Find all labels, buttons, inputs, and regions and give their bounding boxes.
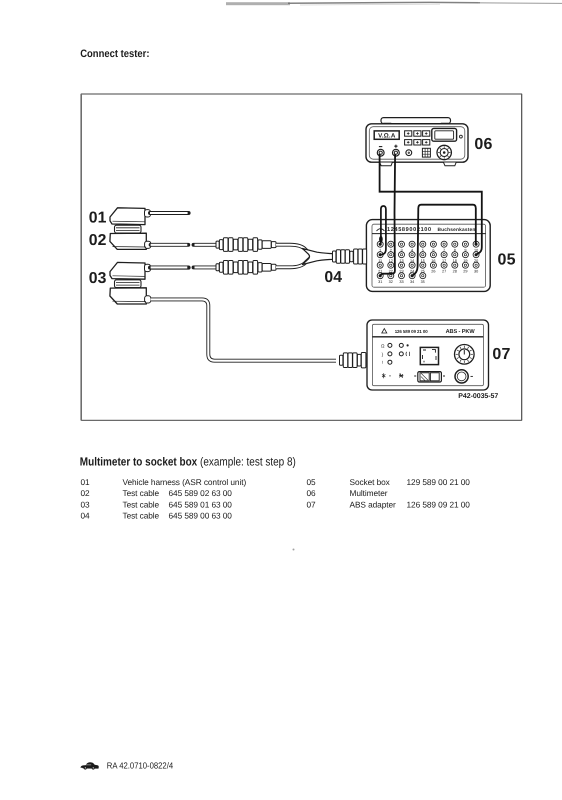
ABS adapter slide switch [414, 372, 445, 382]
connector 03 (plug body) [110, 262, 151, 279]
ribbed plug into ABS adapter [340, 353, 366, 368]
svg-text:03: 03 [89, 270, 107, 287]
svg-text:01: 01 [89, 209, 107, 226]
svg-text:01: 01 [81, 477, 91, 487]
svg-text:06: 06 [307, 488, 317, 498]
multimeter 06 body [366, 118, 468, 166]
svg-text:04: 04 [324, 269, 342, 286]
svg-text:03: 03 [81, 499, 91, 509]
label 02 [89, 232, 107, 249]
cable 02 curve into Y junction [276, 245, 312, 256]
svg-text:02: 02 [89, 232, 107, 249]
ABS adapter round connector [455, 370, 473, 383]
ABS adapter indicator lamps [381, 343, 410, 365]
svg-text:04: 04 [81, 511, 91, 521]
svg-text:02: 02 [81, 488, 91, 498]
ribbed coupler on cable 02 [216, 238, 276, 252]
socket grid pins 1-35 [377, 241, 479, 284]
ABS adapter 07 body [367, 320, 489, 390]
svg-text:Multimeter: Multimeter [350, 488, 388, 498]
svg-text:30: 30 [474, 269, 478, 273]
svg-text:P42-0035-57: P42-0035-57 [458, 393, 498, 400]
svg-text:Connect tester:: Connect tester: [80, 48, 149, 60]
svg-text:RA 42.0710-0822/4: RA 42.0710-0822/4 [107, 761, 173, 771]
label 07 [492, 346, 510, 363]
plug tips in sockets 10, 11, 20, 31, 34 [379, 243, 478, 278]
socket box 05 body [366, 220, 490, 292]
socket box title [377, 227, 476, 233]
svg-text:126 589 09 21 00: 126 589 09 21 00 [407, 499, 471, 509]
ribbed coupler on cable 03 [216, 261, 276, 275]
stray scan dot [293, 549, 295, 551]
figure number P42-0035-57 [458, 393, 498, 400]
svg-text:Multimeter to socket box (exam: Multimeter to socket box (example: test … [80, 455, 296, 469]
svg-text:645 589 01 63 00: 645 589 01 63 00 [169, 499, 233, 509]
section heading [80, 455, 296, 469]
svg-text:Test cable: Test cable [123, 511, 160, 521]
svg-text:645 589 00 63 00: 645 589 00 63 00 [169, 511, 233, 521]
test lead: multimeter minus to socket 20 [380, 154, 482, 254]
svg-text:31: 31 [378, 280, 382, 284]
svg-text:07: 07 [492, 346, 510, 363]
svg-text:33: 33 [399, 280, 403, 284]
jumper lead: socket 1 to socket 11 [379, 206, 386, 255]
svg-text:Test cable: Test cable [123, 499, 160, 509]
svg-text:28: 28 [453, 269, 457, 273]
connector 02 (plug body) [110, 233, 151, 249]
scan artifact line (top edge) [226, 2, 562, 5]
svg-text:!: ! [382, 360, 383, 365]
svg-text:05: 05 [307, 477, 317, 487]
svg-text:34: 34 [410, 280, 414, 284]
label 06 [474, 136, 492, 153]
svg-text:29: 29 [463, 269, 467, 273]
cable 03 lead to ribbed coupler [151, 265, 218, 269]
jumper lead: socket 34 to socket 10 [413, 205, 476, 275]
coupling section between connectors [115, 225, 142, 233]
svg-text:35: 35 [421, 280, 425, 284]
cable from connector 03 [150, 266, 189, 270]
label 05 [498, 252, 516, 269]
ABS adapter rotary knob [455, 345, 475, 365]
ribbed plug of cable 04 into socket box [333, 249, 367, 264]
ABS adapter title row [382, 329, 476, 336]
test lead: multimeter plus to socket 31 [381, 154, 395, 276]
cable 03 curve into Y junction [276, 256, 312, 267]
label 03 [89, 270, 107, 287]
multimeter terminals [377, 145, 399, 157]
connector 03 lower (plug body) [110, 288, 151, 304]
svg-text:129 589 00 21 00: 129 589 00 21 00 [407, 477, 471, 487]
svg-text:06: 06 [474, 136, 492, 153]
diagram border frame [81, 94, 522, 420]
svg-text:Vehicle harness (ASR control u: Vehicle harness (ASR control unit) [123, 477, 247, 487]
svg-text:V.Ω.A: V.Ω.A [378, 133, 396, 140]
svg-text:Test cable: Test cable [123, 488, 160, 498]
cable from connector 03 lower to ABS adapter [151, 299, 336, 360]
svg-text:32: 32 [389, 280, 393, 284]
svg-text:Socket box: Socket box [350, 477, 391, 487]
multimeter LCD [432, 128, 463, 141]
cable from connector 01 [150, 211, 189, 215]
label 04 [324, 269, 342, 286]
coupling section between connectors [115, 280, 142, 288]
multimeter knob [437, 145, 451, 159]
Y junction boot of cable 04 [303, 249, 333, 265]
multimeter display V-ohm-A [374, 131, 399, 140]
ABS adapter bottom symbols [382, 373, 403, 378]
cable 02 lead to ribbed coupler [151, 243, 218, 247]
car icon [81, 762, 99, 769]
svg-text:27: 27 [442, 269, 446, 273]
connector 01 (plug body) [110, 208, 151, 225]
svg-text:Buchsenkasten: Buchsenkasten [438, 227, 476, 233]
svg-text:05: 05 [498, 252, 516, 269]
svg-text:645 589 02 63 00: 645 589 02 63 00 [169, 488, 233, 498]
legend table [81, 477, 471, 521]
svg-text:ABS adapter: ABS adapter [350, 499, 396, 509]
multimeter small controls [406, 148, 431, 157]
label 01 [89, 209, 107, 226]
footer document number [107, 761, 173, 771]
svg-text:Ω: Ω [381, 343, 385, 348]
svg-text:126 589 09 21 00: 126 589 09 21 00 [395, 329, 429, 334]
heading: Connect tester [80, 48, 149, 60]
ABS adapter square connector [420, 347, 438, 364]
multimeter buttons [405, 131, 430, 145]
svg-text:ABS - PKW: ABS - PKW [446, 329, 476, 335]
svg-text:07: 07 [307, 499, 317, 509]
svg-text:26: 26 [431, 269, 435, 273]
